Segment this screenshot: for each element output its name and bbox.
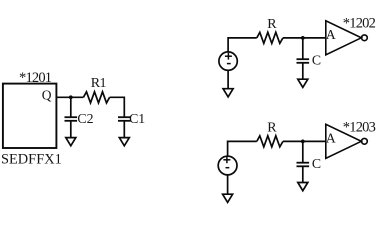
ground (under V1) [223, 89, 233, 97]
svg-text:C1: C1 [129, 111, 145, 126]
junction node at C (bottom) [301, 140, 305, 144]
wire C1 to ground [123, 121, 125, 138]
ground (under V2) [223, 194, 233, 202]
wire V2 top to resistor R [228, 141, 257, 156]
inverter U3 output bubble [362, 138, 368, 144]
capacitor C2 [65, 116, 78, 118]
svg-text:A: A [326, 130, 336, 145]
ground (under C, bottom) [298, 183, 308, 191]
V1 minus sign [227, 63, 231, 65]
wire C2 to ground [70, 121, 72, 138]
V2 plus sign [223, 159, 230, 161]
wire R to buffer input [283, 37, 326, 39]
svg-text:R: R [267, 17, 277, 32]
svg-text:*1202: *1202 [343, 16, 376, 32]
inverter U3 body [326, 124, 362, 158]
wire V1 top to resistor R [228, 38, 257, 52]
svg-text:C: C [312, 52, 321, 67]
svg-text:*1201: *1201 [19, 70, 52, 86]
wire node down to C2 [70, 97, 72, 117]
svg-text:C2: C2 [77, 111, 93, 126]
junction node at C [301, 36, 305, 40]
capacitor C [297, 58, 310, 60]
inverter U2 body [326, 21, 362, 55]
ground (under C1) [119, 138, 129, 146]
svg-text:SEDFFX1: SEDFFX1 [1, 152, 62, 168]
wire V2 bottom to ground [227, 175, 229, 194]
wire node down to C (bottom) [302, 141, 304, 162]
voltage source V2 [218, 156, 237, 175]
wire V1 bottom to ground [227, 70, 229, 88]
wire node down to C [302, 38, 304, 59]
capacitor C1 [118, 116, 131, 118]
svg-text:R: R [267, 121, 277, 136]
svg-text:R1: R1 [91, 76, 107, 91]
ground (under C2) [66, 138, 76, 146]
wire R to buffer input (bottom) [283, 140, 326, 142]
wire C to ground (bottom) [302, 166, 304, 182]
svg-text:C: C [312, 156, 321, 171]
V2 minus sign [226, 167, 230, 169]
wire C to ground [302, 63, 304, 79]
voltage source V1 [219, 52, 237, 70]
resistor R [257, 32, 283, 43]
resistor R (bottom) [257, 136, 283, 147]
wire Q output to R1 [56, 96, 83, 98]
V1 plus sign [225, 55, 232, 57]
svg-text:*1203: *1203 [343, 119, 376, 135]
junction node on Q net [69, 95, 73, 99]
flip-flop U1 SEDFFX1 box [3, 84, 57, 148]
svg-text:A: A [326, 27, 336, 42]
wire R1 to C1 [110, 97, 125, 117]
ground (under C) [298, 79, 308, 87]
svg-text:Q: Q [42, 87, 52, 102]
resistor R1 [83, 92, 109, 103]
inverter U2 output bubble [362, 35, 368, 41]
capacitor C (bottom) [297, 162, 310, 164]
